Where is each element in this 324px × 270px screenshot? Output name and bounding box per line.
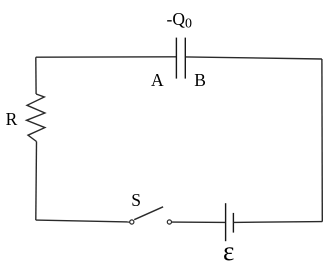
svg-text:-Q0: -Q0 <box>167 9 192 32</box>
svg-text:R: R <box>6 109 18 129</box>
svg-text:ε: ε <box>223 236 234 266</box>
svg-text:A: A <box>151 70 164 90</box>
svg-text:S: S <box>131 190 141 210</box>
svg-text:B: B <box>194 70 206 90</box>
